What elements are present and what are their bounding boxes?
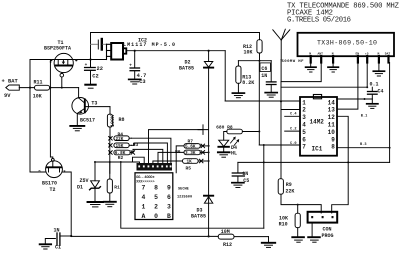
wire BAT up to T1 rail <box>30 60 107 88</box>
battery connector +BAT 9V <box>2 79 35 100</box>
TX pin M (pin6) <box>378 53 380 63</box>
ground under C3 <box>129 79 141 84</box>
svg-text:12: 12 <box>328 114 336 121</box>
svg-text:BS170: BS170 <box>42 181 57 187</box>
TX pin +5 (pin5) <box>365 53 369 63</box>
diode D3 BAT85 <box>191 196 213 220</box>
resistor R6 3.3K <box>158 149 209 163</box>
wire +5 corner down and right to pin1 <box>224 51 226 101</box>
svg-text:3: 3 <box>302 114 306 121</box>
wire pin8 to TX DAT <box>337 63 390 148</box>
bottom rail <box>71 235 218 237</box>
title block text <box>287 3 400 25</box>
svg-text:+: + <box>85 63 88 68</box>
svg-text:10K: 10K <box>33 93 42 99</box>
svg-text:10K: 10K <box>244 50 253 56</box>
svg-text:1: 1 <box>142 204 146 211</box>
wire pin5 stub C.2 <box>285 127 300 131</box>
wire pin2 stub <box>281 109 300 111</box>
wire pin8 down to serial bus <box>389 148 391 163</box>
resistor R7 5.6K <box>176 139 208 173</box>
svg-text:D1: D1 <box>77 185 83 191</box>
ground under R10 <box>292 237 304 242</box>
node junction 120.8,162 <box>120 161 122 163</box>
svg-text:500MW HF: 500MW HF <box>282 60 305 64</box>
node junction 364.5,99 <box>364 98 366 100</box>
regulator IC2 LM1117 MP-5.0 <box>107 37 176 59</box>
wire pin3 stub C.4 <box>285 113 300 117</box>
svg-text:CON: CON <box>323 227 332 233</box>
svg-text:3: 3 <box>167 204 171 211</box>
svg-text:M: M <box>309 53 311 56</box>
svg-text:ΩΩ←←4ΩΩΩ±: ΩΩ←←4ΩΩΩ± <box>136 176 154 180</box>
svg-text:R7: R7 <box>188 139 194 145</box>
svg-text:14: 14 <box>328 99 336 106</box>
svg-text:13: 13 <box>328 107 336 114</box>
svg-text:+: + <box>129 64 132 69</box>
LED D4 HL <box>218 137 238 156</box>
svg-text:C.4: C.4 <box>290 113 297 117</box>
ground under CON pin1 <box>308 237 320 242</box>
node junction 50.4,87.6 <box>49 87 51 89</box>
node junction 30,87.6 <box>29 87 31 89</box>
node junction 109.8,145.3 <box>109 144 111 146</box>
svg-text:8: 8 <box>331 144 335 151</box>
svg-text:0.1: 0.1 <box>370 81 379 87</box>
svg-text:DAT: DAT <box>385 53 391 56</box>
wire +5 rail to TX <box>281 86 367 88</box>
svg-text:A: A <box>142 213 146 220</box>
svg-text:R5: R5 <box>186 165 192 171</box>
ground TX pin M3 <box>328 63 338 73</box>
svg-text:1N: 1N <box>54 228 60 234</box>
svg-text:D3: D3 <box>197 207 203 213</box>
node junction 259.3,131.5 <box>258 131 260 133</box>
svg-text:2: 2 <box>154 204 158 211</box>
svg-text:22K: 22K <box>116 137 124 142</box>
IC1 PICAXE 14M2 <box>300 95 337 156</box>
capacitor C6 1N <box>260 61 276 92</box>
ground under T3 <box>70 126 84 131</box>
wire pin7 stub C.0 <box>259 142 300 146</box>
svg-text:BAT85: BAT85 <box>191 214 206 220</box>
node junction 367.2,87.2 <box>366 86 368 88</box>
node junction 208.6,50.7 <box>208 50 210 52</box>
svg-text:R9: R9 <box>286 182 292 188</box>
resistor R4 22K <box>109 132 132 142</box>
svg-text:1N: 1N <box>261 73 267 79</box>
svg-text:14M2: 14M2 <box>310 119 325 126</box>
wire node down to pin7 <box>258 61 260 145</box>
svg-text:XXX>>>>>>: XXX>>>>>> <box>136 179 154 184</box>
TX module U2 TX3H-869.50-10 <box>298 33 395 56</box>
svg-text:T3: T3 <box>91 100 97 106</box>
connector CON PROG <box>308 212 338 239</box>
ground under C2 <box>85 85 95 89</box>
node junction 134.7,50.7 <box>134 50 136 52</box>
node junction 51.3,60.3 <box>50 59 52 61</box>
junction cross <box>198 125 208 135</box>
svg-text:C6: C6 <box>261 66 267 72</box>
svg-text:R6: R6 <box>175 149 181 155</box>
svg-text:8: 8 <box>154 184 158 191</box>
TX pin M (pin3) <box>332 53 334 63</box>
node junction 95,162 <box>94 161 96 163</box>
wire TX +5 pin down <box>366 63 368 88</box>
svg-text:B.3: B.3 <box>360 143 366 147</box>
ground TX pin M6 <box>373 63 384 77</box>
nest wire p3 cross <box>149 130 204 163</box>
svg-text:4: 4 <box>302 122 306 129</box>
wire pin1 +5 <box>225 100 300 102</box>
wire +5 output rail <box>126 50 225 52</box>
node junction 281,101 <box>280 100 282 102</box>
ground bottom right <box>262 237 275 248</box>
node junction 297.7,204.6 <box>297 204 299 206</box>
svg-text:9: 9 <box>167 184 171 191</box>
node junction 263.8,145 <box>263 144 265 146</box>
nest wire R3 to keypad p7 <box>132 143 168 163</box>
svg-text:LM1117 MP-5.0: LM1117 MP-5.0 <box>123 42 175 48</box>
svg-text:C.0: C.0 <box>290 142 296 146</box>
svg-text:+5: +5 <box>365 53 369 56</box>
ground TX pin M1 <box>306 63 316 73</box>
capacitor C3 4.7u <box>129 50 146 86</box>
svg-text:4: 4 <box>142 194 146 201</box>
transistor T2 BS170 <box>39 159 66 193</box>
capacitor C4 0.1 <box>368 81 384 99</box>
svg-text:1: 1 <box>302 99 306 106</box>
keypad CLAV1 <box>135 173 192 220</box>
node junction 259.5,60.7 <box>259 60 261 62</box>
svg-text:2: 2 <box>302 107 306 114</box>
transistor T1 BSP250FTA <box>44 40 77 88</box>
svg-text:8.2K: 8.2K <box>242 80 254 86</box>
svg-text:5.6K: 5.6K <box>185 145 196 150</box>
svg-text:9: 9 <box>331 136 335 143</box>
svg-text:22: 22 <box>97 66 103 72</box>
resistor R13 8.2K <box>236 61 255 93</box>
ground under R1 <box>104 202 116 207</box>
resistor R3 15K <box>109 142 139 149</box>
TX pin ANT (pin2) <box>318 53 324 63</box>
svg-text:7: 7 <box>142 184 146 191</box>
capacitor C5 1N <box>232 162 249 184</box>
diode D2 BAT85 <box>179 50 213 237</box>
resistor 680 R8b <box>216 125 259 141</box>
svg-text:22K: 22K <box>285 188 294 194</box>
svg-text:6: 6 <box>167 194 171 201</box>
svg-text:3.3K: 3.3K <box>185 151 196 156</box>
wire serial bus y161 <box>238 161 390 163</box>
svg-text:EN: EN <box>356 53 360 56</box>
svg-text:0: 0 <box>154 213 158 220</box>
resistor R11 10K <box>33 79 79 99</box>
ground under C4 / pin14 <box>367 99 378 108</box>
svg-text:15K: 15K <box>116 144 124 149</box>
zener D1 Z5V <box>77 161 100 201</box>
capacitor C7 input <box>91 39 107 50</box>
node junction 208.6,161 <box>208 160 210 162</box>
wire serin net pin2 to R9 to CON pin2 <box>280 110 282 179</box>
nest wire R4 to keypad p8 <box>132 138 171 163</box>
wire antenna to ANT pin <box>281 60 321 82</box>
svg-text:9V: 9V <box>4 93 11 99</box>
svg-text:D: D <box>39 170 41 174</box>
svg-text:R12: R12 <box>223 242 232 248</box>
wire BAT bus down to T2 <box>30 88 46 172</box>
resistor R12 10K top <box>243 33 262 61</box>
wire gate bus down to T2 gate <box>50 60 52 159</box>
wire pin14 to ground/C4 <box>337 98 372 100</box>
wire R13/C6 node <box>238 60 271 62</box>
capacitor C1 1N <box>45 228 71 251</box>
wire pin12 to CON PROG pin3 <box>332 116 349 213</box>
svg-text:D2: D2 <box>185 60 191 66</box>
svg-text:R11: R11 <box>34 79 43 85</box>
resistor R10 10K <box>279 205 301 237</box>
svg-text:11: 11 <box>328 122 336 129</box>
node junction 263.8,162.4 <box>263 161 265 163</box>
svg-text:IC1: IC1 <box>312 146 323 153</box>
svg-text:R8: R8 <box>119 117 125 123</box>
svg-text:HL: HL <box>231 151 237 157</box>
wire T2 source to bottom rail <box>62 172 71 236</box>
svg-text:6: 6 <box>302 136 306 143</box>
resistor R5 1K <box>153 159 209 172</box>
node junction 76.3,60.3 <box>75 59 77 61</box>
resistor R9 22K <box>278 179 294 195</box>
svg-text:M: M <box>332 53 334 56</box>
svg-text:BSP250FTA: BSP250FTA <box>44 45 71 51</box>
nest wire R2 to keypad p6 <box>133 149 163 163</box>
ground under R13 <box>232 93 244 98</box>
resistor R1 <box>107 162 120 201</box>
svg-text:BC517: BC517 <box>80 118 95 124</box>
node junction 208.6,145.9 <box>208 145 210 147</box>
node junction 90.5,59.5 <box>89 58 91 60</box>
node junction 71.2,236 <box>70 235 72 237</box>
node junction 109.8,152.5 <box>109 152 111 154</box>
transistor T3 BC517 <box>72 88 110 126</box>
svg-text:C4: C4 <box>378 89 384 95</box>
capacitor C2 22u <box>85 58 103 84</box>
wire serial bus left leg <box>263 145 265 228</box>
wire common down to bottom rail <box>121 162 264 228</box>
ground under C6 <box>265 93 277 98</box>
svg-text:R10: R10 <box>279 221 288 227</box>
antenna <box>273 29 290 59</box>
svg-text:5: 5 <box>302 129 306 136</box>
wire pin13 to TX EN <box>337 63 358 110</box>
svg-text:B: B <box>167 213 171 220</box>
svg-text:7: 7 <box>302 144 306 151</box>
svg-text:SECHE: SECHE <box>178 187 190 191</box>
svg-text:B.1: B.1 <box>361 115 367 119</box>
svg-text:C2: C2 <box>92 73 98 79</box>
ground left of C1 <box>40 244 51 249</box>
node junction 110,137.4 <box>109 136 111 138</box>
node junction 109.8,162 <box>109 161 111 163</box>
ground under D4 <box>218 152 230 157</box>
node junction 208.6,152.4 <box>208 151 210 153</box>
svg-text:1N: 1N <box>242 171 248 177</box>
wire CON pin1 to ground <box>311 223 313 237</box>
TX pin DAT (pin7) <box>385 53 391 63</box>
ground under C5 <box>232 183 244 188</box>
svg-text:ANT: ANT <box>318 53 324 56</box>
svg-text:R2: R2 <box>118 155 124 161</box>
svg-text:R1: R1 <box>114 184 120 190</box>
svg-text:10: 10 <box>328 129 336 136</box>
svg-text:680 R8: 680 R8 <box>216 125 233 131</box>
svg-text:C1: C1 <box>55 245 61 251</box>
node junction 208.6,236.4 <box>208 235 210 237</box>
svg-text:100K: 100K <box>110 115 116 127</box>
svg-text:T2: T2 <box>50 187 56 193</box>
svg-text:G.TREELS 05/2016: G.TREELS 05/2016 <box>287 17 351 25</box>
resistor R8 100K <box>107 107 124 138</box>
nest wire p2 <box>133 157 145 163</box>
svg-text:10K: 10K <box>279 215 288 221</box>
node junction 389.6,147.7 <box>389 147 391 149</box>
node junction 61.8,87.6 <box>61 87 63 89</box>
svg-text:TX3H-869.50-10: TX3H-869.50-10 <box>317 40 377 47</box>
keypad connector bar <box>137 163 173 171</box>
resistor R2 6.8K <box>109 150 135 161</box>
TX pin M (pin1) <box>309 53 311 63</box>
svg-text:5: 5 <box>154 194 158 201</box>
wire riser to top rail <box>91 33 260 68</box>
resistor R12 10M bottom <box>218 229 268 248</box>
ground under D1 <box>88 202 104 207</box>
svg-text:+ BAT: + BAT <box>2 79 19 85</box>
svg-text:1K: 1K <box>187 160 193 165</box>
svg-text:10M: 10M <box>221 229 230 235</box>
wire keypad common D1 net <box>95 162 140 163</box>
svg-text:1225500: 1225500 <box>177 195 192 199</box>
node junction 348.2,162.4 <box>347 161 349 163</box>
ladder bus <box>109 137 111 173</box>
svg-text:BAT85: BAT85 <box>179 66 194 72</box>
svg-text:C.2: C.2 <box>290 127 296 131</box>
svg-text:PROG: PROG <box>322 233 334 239</box>
svg-text:M: M <box>378 53 380 56</box>
TX pin EN (pin4) <box>356 53 360 63</box>
svg-text:Z5V: Z5V <box>80 178 89 184</box>
